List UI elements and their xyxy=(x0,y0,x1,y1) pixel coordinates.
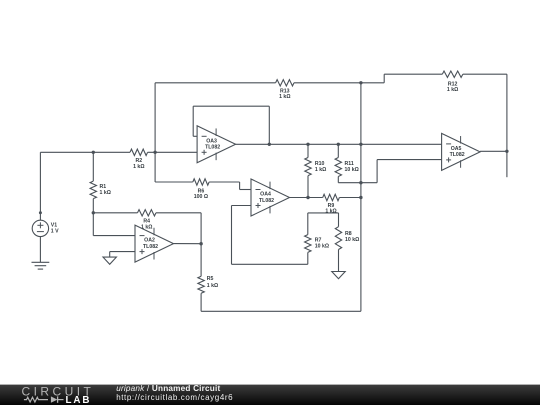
wire: branch up from rail to top run xyxy=(154,83,156,153)
wire: OA2 output xyxy=(174,243,202,245)
wire: R1 bottom lead xyxy=(92,199,94,213)
resistor R2 body xyxy=(130,149,148,155)
wire: R10 bottom lead xyxy=(307,176,309,198)
wire: branch down from rail to R6 xyxy=(154,152,156,182)
wire: left rail y=152 from V1 corner to R2 xyxy=(40,151,130,153)
ground earth below V1 xyxy=(32,262,50,269)
svg-text:LAB: LAB xyxy=(66,395,92,405)
svg-text:1 kΩ: 1 kΩ xyxy=(447,87,458,93)
svg-text:TL082: TL082 xyxy=(259,198,274,204)
wire: R4 right lead to corner xyxy=(156,212,201,214)
wire: down from R4 corner to OA2 output node xyxy=(200,213,202,244)
resistor R10 body xyxy=(305,158,311,176)
label R6 xyxy=(194,188,208,200)
voltage source V1 xyxy=(32,220,48,236)
svg-text:R7: R7 xyxy=(315,237,322,243)
node dot R1 top junction xyxy=(92,151,95,154)
svg-text:OA3: OA3 xyxy=(206,138,217,144)
svg-text:uripank / Unnamed Circuit: uripank / Unnamed Circuit xyxy=(116,384,220,393)
label R11 xyxy=(345,161,359,173)
node dot OA4 output junction xyxy=(306,196,309,199)
resistor R4 body xyxy=(138,210,156,216)
wire: R6 to OA4 minus step down xyxy=(239,182,241,190)
resistor R11 body xyxy=(335,158,341,177)
wire: upper run y=74 to R12 xyxy=(384,73,442,75)
svg-text:TL082: TL082 xyxy=(450,152,465,158)
ground sgnd below R8 xyxy=(332,272,345,279)
resistor R6 body xyxy=(193,179,209,185)
wire: top run R13 to step xyxy=(294,82,384,84)
label R7 xyxy=(315,237,329,249)
wire: R7 bottom lead xyxy=(307,252,309,264)
wire: R9 right lead xyxy=(339,197,361,199)
svg-text:1 kΩ: 1 kΩ xyxy=(325,209,336,215)
node dot V1 top xyxy=(39,211,42,214)
logo diode xyxy=(51,396,64,402)
label R5 xyxy=(207,276,218,289)
op-amp OA4 xyxy=(251,179,290,216)
resistor R12 body xyxy=(442,71,463,77)
wire: into OA5 plus input xyxy=(377,159,442,161)
svg-text:http://circuitlab.com/cayg4r6: http://circuitlab.com/cayg4r6 xyxy=(116,393,233,402)
svg-text:1 kΩ: 1 kΩ xyxy=(315,167,326,173)
resistor R13 body xyxy=(276,80,294,86)
wire: into OA4 plus input xyxy=(232,205,252,207)
footer url line xyxy=(116,393,233,402)
wire: OA3 feedback top xyxy=(193,105,269,107)
wire: R11 bottom lead xyxy=(337,177,339,183)
node dot x361 at y183 xyxy=(359,181,362,184)
svg-text:OA4: OA4 xyxy=(260,192,271,198)
label R9 xyxy=(325,203,336,215)
node dot R13 branch junction xyxy=(153,151,156,154)
node dot R10 top xyxy=(306,143,309,146)
wire: R4 left lead xyxy=(93,212,137,214)
svg-text:R11: R11 xyxy=(345,161,354,167)
wire: R7 top lead xyxy=(307,213,309,235)
label R4 xyxy=(141,219,152,231)
wire: stub below OA5 output junction xyxy=(506,151,508,177)
wire: into OA2 minus input xyxy=(93,235,135,237)
wire: R8 top lead xyxy=(338,213,340,227)
wire: R10 top lead xyxy=(307,144,309,157)
wire: R12 to right corner xyxy=(463,73,507,75)
wire: OA5 output to junction xyxy=(480,150,507,152)
svg-text:1 kΩ: 1 kΩ xyxy=(133,164,144,170)
svg-text:10 kΩ: 10 kΩ xyxy=(345,167,359,173)
node dot R1 bottom junction xyxy=(92,211,95,214)
svg-text:OA5: OA5 xyxy=(451,146,462,152)
wire: into OA4 minus input xyxy=(240,189,251,191)
svg-text:R1: R1 xyxy=(100,184,107,190)
wire: up to OA4 plus level xyxy=(231,206,233,265)
svg-text:10 kΩ: 10 kΩ xyxy=(345,237,359,243)
resistor R9 body xyxy=(323,194,340,200)
wire: OA4 output xyxy=(290,197,323,199)
wire: bottom rail xyxy=(201,310,361,312)
svg-text:1 kΩ: 1 kΩ xyxy=(207,283,218,289)
wire: into OA3 minus input xyxy=(193,135,197,137)
wire: R6 right lead xyxy=(209,181,240,183)
label R1 xyxy=(100,184,111,196)
node dot x361 on output run xyxy=(359,143,362,146)
svg-text:TL082: TL082 xyxy=(143,244,158,250)
op-amp OA5 xyxy=(442,133,481,170)
wire: R1 top lead xyxy=(92,152,94,181)
wire: R8 bottom lead xyxy=(338,250,340,272)
label V1 xyxy=(51,223,59,235)
wire: rail from R2 to OA3 plus input xyxy=(148,151,198,153)
resistor R7 body xyxy=(305,235,311,253)
node dot R11 top xyxy=(337,143,340,146)
svg-text:1 kΩ: 1 kΩ xyxy=(279,94,290,100)
wire: top run y=83 to R13 xyxy=(155,82,276,84)
svg-text:1 V: 1 V xyxy=(51,229,59,235)
resistor R8 body xyxy=(335,227,341,250)
wire: R11 top lead xyxy=(337,144,339,157)
wire: down to R5 xyxy=(200,244,202,277)
label R10 xyxy=(315,161,326,173)
svg-text:R5: R5 xyxy=(207,276,214,282)
svg-text:100 Ω: 100 Ω xyxy=(194,194,208,200)
wire: right edge down to OA5 output xyxy=(506,74,508,151)
wire: R5 bottom lead xyxy=(200,293,202,311)
wire: V1 top lead up to left rail xyxy=(39,152,41,220)
wire: R6 left lead xyxy=(155,181,193,183)
svg-text:10 kΩ: 10 kΩ xyxy=(315,243,329,249)
logo LAB text xyxy=(66,395,92,405)
label R2 xyxy=(133,158,144,170)
node dot OA5 output junction xyxy=(505,150,508,153)
resistor R1 body xyxy=(90,181,96,199)
svg-text:1 kΩ: 1 kΩ xyxy=(100,190,111,196)
wire: long vertical x=361 xyxy=(360,83,362,311)
svg-text:R10: R10 xyxy=(315,161,325,167)
node dot R9 right junction xyxy=(359,196,362,199)
wire: R7 bottom run left xyxy=(232,263,308,265)
footer bar xyxy=(0,385,540,405)
op-amp OA2 xyxy=(135,225,174,262)
node dot top run x361 xyxy=(359,81,362,84)
node dot OA2 output junction xyxy=(199,242,202,245)
logo CIRCUIT text xyxy=(22,384,95,398)
svg-text:R8: R8 xyxy=(345,231,352,237)
resistor R5 body xyxy=(198,276,204,293)
svg-text:OA2: OA2 xyxy=(144,238,155,244)
wire: V1 bottom lead xyxy=(39,237,41,263)
wire: OA3 output run to OA5 minus xyxy=(236,143,442,145)
wire: R7 R8 top run xyxy=(308,212,339,214)
label R8 xyxy=(345,231,359,243)
wire: step up xyxy=(383,74,385,83)
footer title line xyxy=(116,384,220,393)
wire: step up to OA5 plus xyxy=(376,160,378,183)
label R13 xyxy=(279,89,290,101)
wire: OA3 feedback up xyxy=(268,106,270,144)
logo resistor zigzag xyxy=(24,397,48,402)
ground sgnd at OA2 plus xyxy=(103,252,116,265)
wire: OA3 feedback left down xyxy=(192,106,194,136)
wire: down from R1 node toward OA2 minus xyxy=(92,213,94,236)
op-amp OA3 xyxy=(197,126,236,163)
wire: OA2 plus input from ground xyxy=(110,251,135,253)
wire: R11 bottom run right xyxy=(338,182,377,184)
label R12 xyxy=(447,81,458,93)
svg-text:TL082: TL082 xyxy=(205,145,220,151)
node dot OA3 feedback tap xyxy=(268,143,271,146)
